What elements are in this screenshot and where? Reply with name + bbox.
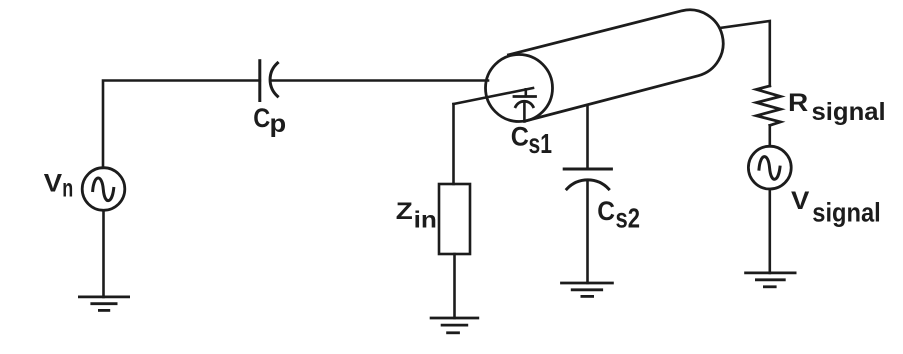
svg-text:signal: signal: [812, 98, 886, 126]
svg-text:C: C: [597, 197, 615, 226]
svg-text:s1: s1: [529, 130, 552, 160]
svg-text:signal: signal: [812, 198, 880, 228]
svg-text:p: p: [270, 109, 287, 138]
svg-text:s2: s2: [616, 203, 640, 234]
svg-text:C: C: [511, 123, 529, 152]
svg-text:C: C: [253, 104, 270, 134]
svg-text:V: V: [791, 186, 810, 215]
svg-text:in: in: [414, 208, 437, 233]
svg-text:R: R: [788, 88, 808, 116]
svg-text:Z: Z: [396, 197, 413, 225]
svg-text:n: n: [62, 175, 73, 202]
svg-text:V: V: [44, 169, 63, 198]
